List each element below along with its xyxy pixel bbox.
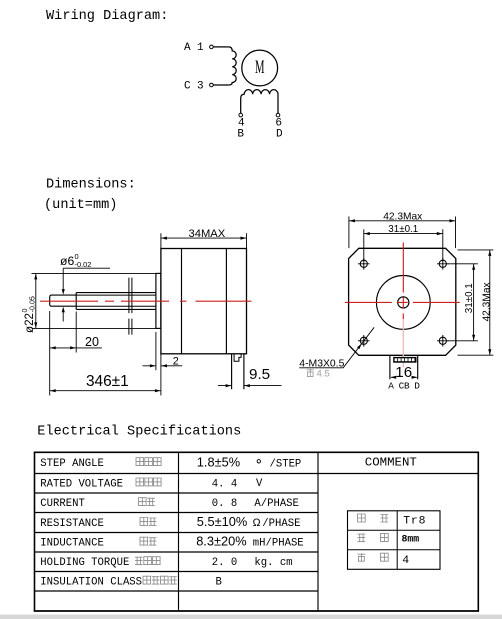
svg-text:Electrical Specifications: Electrical Specifications <box>37 424 241 439</box>
heading "Electrical Specifications" <box>37 424 241 439</box>
row RESISTANCE <box>40 518 156 530</box>
svg-text:8mm: 8mm <box>402 534 420 545</box>
svg-text:Dimensions:: Dimensions: <box>46 178 136 193</box>
dim 42.3Max vertical <box>458 250 494 355</box>
labels 6 D <box>275 118 283 141</box>
value 0.8 A/PHASE <box>212 498 299 510</box>
svg-text:31±0.1: 31±0.1 <box>388 224 418 235</box>
svg-text:(unit=mm): (unit=mm) <box>44 198 117 213</box>
shaft flat end marks (double vertical lines) <box>129 278 132 335</box>
svg-text:42.3Max: 42.3Max <box>383 211 422 222</box>
svg-text:5.5±10%: 5.5±10% <box>197 514 247 529</box>
nested row starts: 4 <box>358 553 410 567</box>
wire terminal1 to coil top <box>213 46 228 48</box>
shaft circle front view <box>398 297 409 308</box>
svg-text:1: 1 <box>197 42 204 54</box>
dim 31 +/-0.1 horizontal <box>364 224 443 260</box>
svg-text:0. 8: 0. 8 <box>212 498 237 510</box>
note depth 4.5 (grey) <box>307 368 330 379</box>
svg-text:D: D <box>276 129 283 141</box>
terminal 3 (C) <box>210 83 214 87</box>
label C 3 (phase C lead) <box>184 81 204 93</box>
dim 16 (connector) <box>391 364 418 381</box>
svg-text:CURRENT: CURRENT <box>40 498 85 510</box>
svg-text:4: 4 <box>402 555 409 567</box>
row INSULATION CLASS <box>40 576 177 588</box>
mounting hole top-right (M3) <box>437 258 449 270</box>
svg-text:D: D <box>414 381 420 392</box>
dim 31 +/-0.1 vertical <box>448 264 478 341</box>
row STEP ANGLE <box>40 458 161 470</box>
dim phi22 0/-0.05 <box>20 273 156 333</box>
svg-text:RESISTANCE: RESISTANCE <box>40 518 104 530</box>
svg-text:1.8±5%: 1.8±5% <box>197 455 240 470</box>
terminal 1 (A) <box>210 45 214 49</box>
svg-text:2. 0: 2. 0 <box>212 557 237 569</box>
svg-text:16: 16 <box>395 364 412 381</box>
svg-text:20: 20 <box>85 335 99 349</box>
heading "(unit=mm)" <box>44 198 117 213</box>
table grid <box>34 452 479 611</box>
label A 1 (phase A lead) <box>184 42 204 54</box>
svg-text:3: 3 <box>197 81 204 93</box>
motor M circle <box>242 50 278 86</box>
svg-text:kg. cm: kg. cm <box>254 557 292 569</box>
dim 9.5 (rear pin) <box>218 366 282 387</box>
value 2.0 kg.cm <box>212 557 293 569</box>
bottom grey bar <box>0 615 502 619</box>
value 8.3 +/-20% mH/PHASE <box>196 534 303 550</box>
svg-text:/STEP: /STEP <box>270 458 302 470</box>
pilot boss circle front view <box>376 276 430 330</box>
svg-text:Ω: Ω <box>253 517 261 529</box>
dim 42.3Max horizontal <box>349 211 456 248</box>
svg-text:ø22: ø22 <box>23 313 36 333</box>
svg-text:4. 4: 4. 4 <box>212 478 237 490</box>
svg-text:A: A <box>184 42 191 54</box>
svg-text:A/PHASE: A/PHASE <box>254 498 299 510</box>
svg-text:8.3±20%: 8.3±20% <box>196 534 246 549</box>
value 1.8 +/-5% and unit deg/STEP <box>197 455 301 471</box>
nested row lead: 8mm <box>358 534 420 545</box>
svg-text:/PHASE: /PHASE <box>262 518 300 530</box>
svg-text:Tr8: Tr8 <box>403 516 426 528</box>
svg-text:INDUCTANCE: INDUCTANCE <box>40 538 104 550</box>
mounting hole bottom-left (M3) <box>358 335 370 347</box>
motor body front view (chamfered square) <box>349 248 456 355</box>
row HOLDING TORQUE <box>40 557 160 569</box>
svg-text:31±0.1: 31±0.1 <box>464 283 475 313</box>
svg-text:B: B <box>237 129 244 141</box>
terminal 4 (B) <box>239 113 243 117</box>
inductor winding A-C (vertical coil) <box>229 47 237 85</box>
COMMENT header <box>365 455 417 469</box>
heading "Dimensions:" <box>46 178 136 193</box>
svg-text:2: 2 <box>173 356 179 368</box>
svg-text:4.5: 4.5 <box>317 368 330 379</box>
heading "Wiring Diagram:" <box>46 9 168 24</box>
svg-text:B: B <box>404 381 410 392</box>
svg-text:346±1: 346±1 <box>86 373 129 390</box>
svg-text:HOLDING TORQUE: HOLDING TORQUE <box>40 557 129 569</box>
value 5.5 +/-10% Ohm/PHASE <box>197 514 301 530</box>
mounting hole bottom-right (M3) <box>437 335 449 347</box>
dim phi6 0/-0.02 <box>60 252 110 322</box>
svg-text:STEP ANGLE: STEP ANGLE <box>40 458 104 470</box>
svg-text:COMMENT: COMMENT <box>365 455 417 469</box>
nested comment table grid <box>348 511 441 570</box>
svg-text:A: A <box>388 381 394 392</box>
value 4.4 V <box>212 478 263 490</box>
pin labels A CB D <box>388 381 420 392</box>
front boss (pilot) side view <box>156 273 161 328</box>
shaft side view <box>50 293 156 310</box>
svg-text:V: V <box>256 478 263 490</box>
red centerlines front view <box>345 243 461 368</box>
wire coil bottom to terminal3 <box>213 84 228 86</box>
dim 34MAX <box>161 228 247 249</box>
value B (insulation class) <box>216 577 222 589</box>
svg-text:-0.02: -0.02 <box>75 260 92 269</box>
svg-text:-0.05: -0.05 <box>27 296 36 312</box>
svg-text:M: M <box>255 58 265 78</box>
motor body side view outline <box>161 249 247 354</box>
row RATED VOLTAGE <box>40 478 161 490</box>
dim 20 (shaft flat length) <box>50 311 102 396</box>
dim 346 +/-1 (overall length) <box>50 373 161 392</box>
svg-text:ø6: ø6 <box>60 254 74 268</box>
svg-text:34MAX: 34MAX <box>189 228 226 240</box>
svg-text:42.3Max: 42.3Max <box>481 282 492 321</box>
terminal connector front view <box>390 355 418 379</box>
row CURRENT <box>40 498 155 510</box>
red centerline (side view) <box>40 300 252 302</box>
svg-text:mH/PHASE: mH/PHASE <box>253 538 304 550</box>
rear pin / connector side view <box>232 354 244 390</box>
labels 4 B <box>237 118 245 141</box>
inductor winding B-D (horizontal coil) <box>241 90 278 114</box>
nested row spec: Tr8 <box>358 514 427 528</box>
svg-text:RATED VOLTAGE: RATED VOLTAGE <box>40 478 123 490</box>
svg-text:Wiring Diagram:: Wiring Diagram: <box>46 9 168 24</box>
dim 2 (boss thickness) <box>143 332 183 396</box>
terminal 6 (D) <box>276 113 280 117</box>
mounting hole top-left (M3) <box>358 258 370 270</box>
svg-text:INSULATION CLASS: INSULATION CLASS <box>40 577 142 589</box>
svg-text:B: B <box>216 577 222 589</box>
svg-text:C: C <box>184 81 191 93</box>
row INDUCTANCE <box>40 537 156 549</box>
leader 4-M3X0.5 <box>299 327 374 369</box>
svg-text:9.5: 9.5 <box>249 366 270 383</box>
